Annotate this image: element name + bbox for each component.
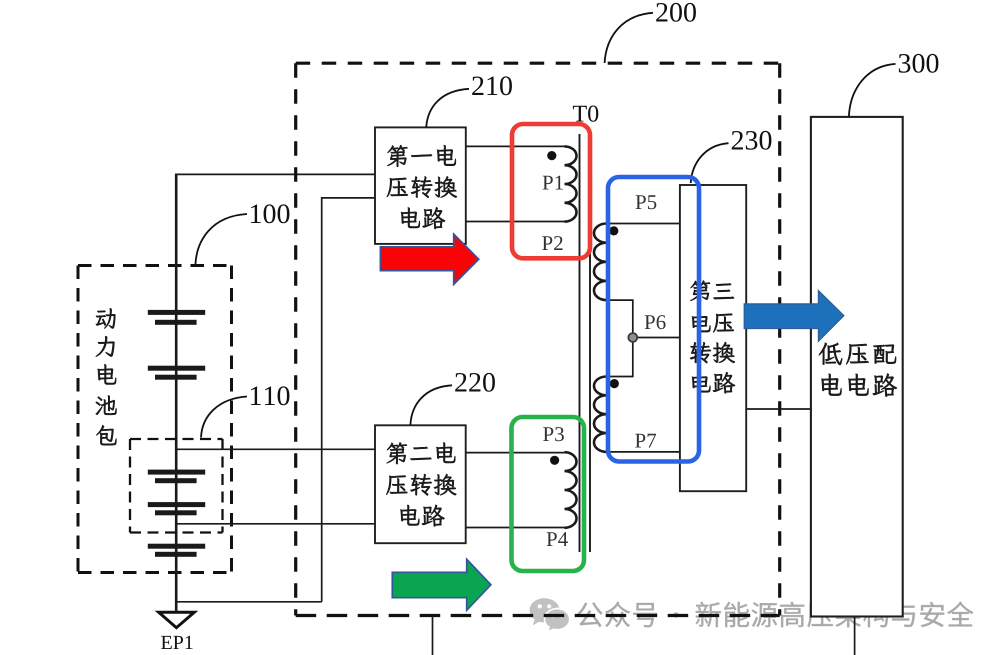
battery cell B4 bbox=[148, 502, 205, 507]
winding P3 bbox=[565, 452, 577, 528]
transformer T0 core bbox=[580, 134, 591, 552]
leader line 230 bbox=[691, 143, 729, 183]
label 210 bbox=[472, 76, 512, 95]
wire tap from upper winding to P6 node bbox=[607, 300, 633, 337]
label 220 bbox=[455, 373, 495, 392]
dashed box 100 (power battery pack) bbox=[78, 266, 232, 573]
watermark text 公众号·新能源高压架构与安全 bbox=[578, 602, 974, 628]
label P6 bbox=[645, 315, 666, 329]
junction dot P6 bbox=[628, 333, 637, 342]
label P2 bbox=[542, 236, 562, 250]
wire bottom return horizontal bbox=[176, 601, 322, 603]
ground EP1 bbox=[159, 612, 195, 627]
label 300 bbox=[899, 54, 939, 73]
blue highlight box around secondary winding bbox=[608, 177, 699, 462]
wire P6 node down to lower winding bbox=[607, 338, 633, 377]
wire battery main vertical bbox=[175, 174, 178, 612]
box 220 second voltage conversion circuit bbox=[375, 425, 466, 543]
leader line 300 bbox=[849, 64, 896, 117]
text 第三电压转换电路 bbox=[690, 281, 710, 302]
red highlight box around P1/P2 winding bbox=[512, 124, 590, 258]
label 230 bbox=[732, 131, 772, 150]
wire box220 out bottom to P3 bbox=[466, 527, 565, 529]
text 动力电池包 bbox=[96, 308, 116, 328]
label P7 bbox=[635, 434, 656, 448]
text 第一电压转换电路 bbox=[387, 145, 407, 167]
wire box210 out bottom to P1 bbox=[466, 221, 565, 223]
battery cell B2 bbox=[148, 366, 205, 371]
box 210 first voltage conversion circuit bbox=[375, 127, 466, 243]
green highlight box around P3/P4 winding bbox=[512, 417, 585, 571]
leader line 200 bbox=[605, 13, 653, 63]
label 110 bbox=[251, 386, 289, 405]
box 230 third voltage conversion circuit bbox=[680, 185, 746, 491]
polarity dot P1 bbox=[547, 151, 556, 160]
blue arrow bbox=[744, 291, 844, 342]
secondary winding lower bbox=[594, 377, 607, 452]
wire battery top to box 210 bbox=[175, 173, 375, 175]
leader line 100 bbox=[195, 214, 247, 265]
red arrow bbox=[380, 234, 478, 284]
text 低压配电电路 bbox=[819, 343, 842, 365]
label P4 bbox=[547, 532, 568, 546]
wire tap2 battery to box 220 bbox=[176, 523, 375, 525]
label P3 bbox=[543, 427, 564, 441]
green arrow bbox=[392, 559, 491, 610]
secondary winding upper bbox=[594, 224, 607, 301]
battery cell B5 bbox=[148, 544, 205, 549]
polarity dot lower secondary bbox=[610, 379, 619, 388]
polarity dot P5 bbox=[609, 226, 618, 235]
watermark wechat icon bbox=[530, 598, 570, 632]
wire box 230 to box 300 bbox=[746, 408, 811, 410]
text 第二电压转换电路 bbox=[387, 442, 407, 464]
wire P5 to box 230 bbox=[607, 223, 680, 225]
wire vertical return to box 210 bbox=[322, 198, 375, 602]
label T0 bbox=[573, 106, 598, 122]
leader line 210 bbox=[426, 89, 469, 128]
wire box210 out top to P1 bbox=[466, 145, 565, 147]
label 100 bbox=[251, 204, 289, 223]
wire below box 300 bbox=[854, 617, 856, 655]
leader line 220 bbox=[410, 385, 452, 425]
box 300 low-voltage distribution circuit bbox=[811, 117, 903, 617]
wire P7 to box 230 bbox=[607, 451, 680, 453]
winding P1 bbox=[565, 146, 577, 221]
label P5 bbox=[636, 195, 657, 209]
wire tap1 battery to box 220 bbox=[176, 448, 375, 450]
label EP1 bbox=[161, 636, 193, 649]
wire P6 to box 230 bbox=[633, 337, 680, 339]
wire box220 out top to P3 bbox=[466, 452, 565, 454]
leader line 110 bbox=[201, 397, 247, 438]
battery cell B1 bbox=[148, 310, 205, 315]
dashed box 110 (battery sub-module) bbox=[130, 439, 223, 533]
label P1 bbox=[543, 176, 563, 190]
polarity dot P3 bbox=[550, 456, 559, 465]
wire below box 200 bbox=[432, 616, 434, 655]
label 200 bbox=[656, 3, 696, 22]
battery cell B3 bbox=[148, 470, 205, 475]
dashed box 200 (voltage conversion unit) bbox=[296, 63, 780, 615]
